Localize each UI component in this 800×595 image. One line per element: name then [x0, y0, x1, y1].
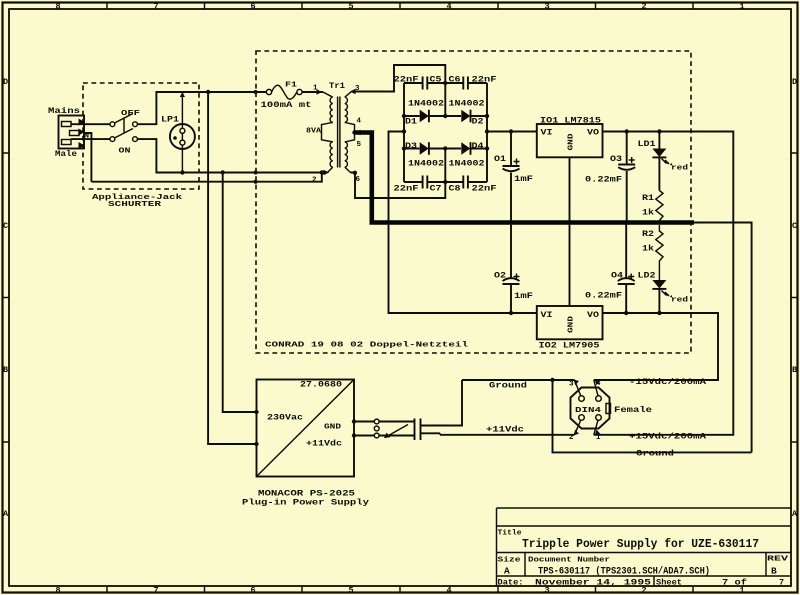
svg-text:22nF: 22nF	[472, 184, 497, 194]
svg-text:4: 4	[446, 2, 451, 12]
wire IO2 GND to bus	[569, 225, 571, 307]
pin 6 arrow and node	[353, 171, 357, 175]
connector jack double bars	[415, 419, 421, 441]
svg-text:7: 7	[779, 578, 784, 588]
svg-text:GND: GND	[568, 315, 576, 333]
svg-text:C5: C5	[430, 75, 442, 85]
transformer primary winding top-left	[323, 92, 333, 122]
svg-text:REV: REV	[767, 556, 789, 564]
svg-text:6: 6	[250, 585, 255, 595]
svg-text:1: 1	[739, 2, 744, 12]
svg-text:B: B	[3, 365, 8, 375]
diode D1	[420, 110, 429, 123]
O2 plus sign	[514, 274, 520, 280]
transformer secondary winding top-right	[345, 92, 352, 123]
LED LD2 triangle	[652, 280, 666, 289]
svg-text:C7: C7	[430, 184, 442, 194]
svg-text:C: C	[3, 221, 8, 231]
wire mains L to switch	[71, 123, 110, 125]
svg-text:22nF: 22nF	[472, 75, 497, 85]
DIN keyway	[606, 404, 611, 414]
capacitor O1 plates	[503, 166, 520, 171]
svg-text:A: A	[792, 509, 798, 519]
LED LD2 lead to negative rail	[658, 289, 660, 313]
node D1 anode	[402, 114, 406, 118]
svg-text:1N4002: 1N4002	[449, 99, 485, 109]
svg-text:Sheet: Sheet	[656, 578, 682, 588]
svg-text:5: 5	[357, 141, 362, 149]
DIN pin circle 1	[596, 415, 602, 421]
svg-text:22nF: 22nF	[394, 184, 419, 194]
svg-text:Title: Title	[498, 530, 523, 538]
node MONACOR pin 230V-2	[254, 442, 258, 446]
wire pin 3 to bridge AC1	[352, 65, 446, 116]
svg-text:O2: O2	[494, 271, 506, 281]
mains connector pin E	[70, 131, 80, 136]
svg-text:R1: R1	[642, 193, 654, 203]
svg-text:Document Number: Document Number	[528, 557, 610, 565]
pin 3 arrow	[350, 89, 356, 95]
LD2 emission arrows	[662, 291, 670, 297]
svg-text:2: 2	[641, 2, 646, 12]
switch S1 pole 2 contacts	[110, 137, 115, 142]
LED LD2 cathode bar	[652, 288, 666, 290]
svg-text:GND: GND	[324, 424, 342, 432]
svg-text:+15Vdc/200mA: +15Vdc/200mA	[629, 432, 707, 442]
svg-text:2: 2	[312, 177, 317, 185]
wire switch pole2 to bottom rail	[137, 139, 327, 172]
svg-text:GND: GND	[568, 133, 576, 151]
frame column numbers bottom	[55, 585, 744, 595]
DIN pin circle 4	[596, 396, 602, 402]
node lamp bottom	[180, 170, 184, 174]
wire IO1 VO rail	[594, 132, 734, 435]
svg-text:D2: D2	[472, 117, 484, 127]
wire mains N to switch	[71, 138, 110, 140]
frame row letters right	[792, 77, 798, 519]
bridge diode row 2 wires	[404, 148, 487, 150]
wire switch pole1 to top rail	[137, 92, 266, 124]
svg-text:N: N	[84, 131, 89, 141]
op regulator IO1 LM7815 box	[537, 124, 603, 157]
transformer Tr1 core	[338, 97, 340, 168]
capacitor C8 plates	[463, 176, 468, 189]
svg-text:IO2 LM7905: IO2 LM7905	[539, 341, 600, 351]
svg-text:OFF: OFF	[121, 110, 141, 118]
node LD1 at VO rail	[657, 129, 661, 133]
svg-text:+11Vdc: +11Vdc	[486, 425, 524, 435]
mains connector pin N	[62, 140, 72, 145]
svg-text:IO1 LM7815: IO1 LM7815	[540, 116, 601, 126]
wire mains E bottom run	[91, 173, 321, 182]
transformer secondary winding bottom-right	[345, 142, 351, 173]
svg-text:O3: O3	[610, 154, 622, 164]
svg-text:100mA mt: 100mA mt	[261, 100, 312, 110]
connector plug arrow	[385, 425, 408, 438]
frame row letters left	[3, 77, 9, 519]
svg-text:ON: ON	[119, 148, 131, 156]
DIN pin 2 stub	[575, 420, 582, 435]
LED LD1 triangle	[652, 149, 666, 158]
bridge top capacitor row	[404, 82, 487, 84]
node MONACOR pin +11V out	[352, 433, 356, 437]
svg-text:1k: 1k	[642, 244, 654, 254]
svg-text:6: 6	[356, 176, 361, 184]
svg-text:4: 4	[446, 585, 451, 595]
wire mains E down	[85, 133, 91, 182]
node bottom rail to monacor drop	[221, 170, 225, 174]
svg-text:A: A	[3, 509, 9, 519]
svg-text:D: D	[792, 77, 797, 87]
svg-text:1k: 1k	[642, 208, 654, 218]
bridge right rail (positive)	[486, 83, 488, 182]
svg-text:1N4002: 1N4002	[408, 159, 444, 169]
svg-text:VI: VI	[541, 128, 553, 138]
LED LD1 lead	[658, 132, 660, 191]
svg-text:1: 1	[313, 85, 318, 93]
bridge bottom capacitor row	[404, 181, 487, 183]
power supply U2 MONACOR box	[257, 380, 355, 477]
svg-text:27.0680: 27.0680	[300, 380, 342, 390]
node top rail to monacor drop	[206, 90, 210, 94]
node D2 cathode	[485, 114, 489, 118]
O1 plus sign	[514, 159, 520, 165]
svg-text:22nF: 22nF	[394, 75, 419, 85]
DIN pin 4 stub	[594, 380, 598, 397]
wire drop to monacor 230V pin 1	[223, 173, 257, 413]
capacitor O3 plates	[618, 165, 635, 170]
wire ground top run	[462, 379, 575, 381]
node ground riser to bottom ground	[550, 378, 554, 382]
svg-text:LP1: LP1	[161, 115, 179, 125]
svg-text:C: C	[792, 221, 797, 231]
svg-text:Ground: Ground	[636, 449, 674, 459]
capacitor O3 lead	[626, 132, 628, 221]
wire bus thin extension to right	[694, 223, 752, 453]
LD1 emission arrows	[662, 159, 670, 165]
switch mechanical link	[123, 118, 125, 134]
CONRAD dashed box	[256, 51, 691, 353]
mains connector pin L	[62, 122, 72, 127]
svg-text:+11Vdc: +11Vdc	[306, 439, 342, 449]
node wire crossing dashed edge mid	[254, 171, 258, 175]
DIN pin 1 stub	[594, 420, 598, 435]
frame column numbers top	[55, 2, 744, 12]
svg-text:November 14, 1995: November 14, 1995	[535, 578, 651, 588]
capacitor O4 plates	[618, 278, 635, 284]
svg-text:8: 8	[55, 2, 60, 12]
diode D2	[461, 110, 470, 123]
pin 1 arrow	[317, 89, 323, 95]
svg-text:4: 4	[596, 380, 601, 388]
svg-text:6: 6	[250, 2, 255, 12]
svg-text:F1: F1	[285, 82, 298, 90]
node wire crossing dashed edge low	[254, 180, 258, 184]
mains connector J1 outline	[59, 116, 85, 149]
svg-text:1mF: 1mF	[514, 174, 533, 184]
svg-text:VI: VI	[541, 310, 553, 320]
node LD2 at VO rail	[657, 311, 661, 315]
wire IO2 VO rail	[594, 313, 718, 380]
resistor R1	[656, 191, 663, 223]
svg-text:1: 1	[596, 434, 601, 442]
svg-text:Date:: Date:	[498, 578, 524, 588]
node O2 at VI rail	[509, 311, 513, 315]
node D1 cathode AC1	[443, 114, 447, 118]
frame column ticks top	[107, 3, 693, 10]
svg-text:DIN4: DIN4	[575, 407, 602, 415]
svg-text:Ground: Ground	[489, 381, 527, 391]
frame row ticks left	[3, 153, 10, 442]
frame row ticks right	[791, 153, 798, 442]
svg-text:7: 7	[153, 585, 158, 595]
capacitor O2 lead	[510, 225, 512, 314]
wire GND out to plug	[354, 421, 415, 423]
O3 plus sign	[629, 157, 635, 163]
resistor R2	[656, 225, 663, 280]
connector plug circles	[374, 419, 379, 424]
node center tap	[352, 130, 356, 134]
transformer primary winding bottom-left	[328, 142, 333, 173]
svg-text:Tripple Power Supply for UZE-6: Tripple Power Supply for UZE-630117	[522, 537, 759, 551]
pin 2 arrow	[324, 170, 330, 176]
wire fuse to transformer pin 1	[302, 91, 323, 93]
svg-text:Tr1: Tr1	[329, 81, 345, 91]
svg-text:D1: D1	[405, 117, 417, 127]
svg-text:5: 5	[348, 585, 353, 595]
svg-text:1mF: 1mF	[514, 291, 533, 301]
title block frame	[497, 508, 792, 586]
svg-text:7: 7	[153, 2, 158, 12]
svg-text:C6: C6	[449, 75, 461, 85]
svg-text:3: 3	[569, 381, 574, 389]
node pos rail at right rail	[485, 129, 489, 133]
capacitor O4 lead	[625, 225, 627, 314]
svg-text:2: 2	[569, 434, 574, 442]
wire thick center tap to ground bus	[355, 133, 372, 223]
switch S1 pole 1 blade	[115, 114, 134, 124]
DIN connector octagon	[571, 388, 610, 429]
svg-text:0.22mF: 0.22mF	[585, 291, 622, 301]
MONACOR diagonal	[257, 380, 355, 477]
node D3 anode	[402, 146, 406, 150]
DIN pin 3 stub	[575, 380, 582, 397]
svg-text:D: D	[3, 77, 8, 87]
diode D4	[461, 142, 470, 155]
node O3 at VO rail	[625, 129, 629, 133]
node AC1 top cap row	[443, 81, 447, 85]
LED LD1 cathode bar	[652, 156, 666, 158]
svg-text:Mains: Mains	[48, 106, 80, 116]
switch S1 pole 1 contacts	[110, 122, 115, 127]
node mains E joins pin2	[320, 170, 324, 174]
bridge diode row 1 wires	[404, 115, 487, 117]
node MONACOR pin 230V-1	[254, 410, 258, 414]
node O4 at VO rail	[624, 311, 628, 315]
svg-text:Female: Female	[614, 405, 652, 415]
svg-text:LD1: LD1	[638, 139, 656, 149]
DIN pin circle 2	[579, 415, 585, 421]
svg-text:A: A	[504, 566, 510, 577]
svg-text:7 of: 7 of	[722, 578, 747, 588]
frame column ticks bottom	[107, 586, 693, 593]
svg-text:-15Vdc/200mA: -15Vdc/200mA	[629, 377, 707, 387]
transformer primary series link	[322, 122, 333, 141]
wire jack +11V to DIN pin 2	[421, 433, 575, 435]
svg-text:O1: O1	[494, 154, 506, 164]
svg-text:D4: D4	[472, 141, 484, 151]
diode D3	[420, 142, 429, 155]
wire IO1 GND to bus	[569, 157, 571, 220]
node MONACOR pin GND out	[352, 419, 356, 423]
svg-text:C8: C8	[449, 184, 461, 194]
svg-text:LD2: LD2	[638, 271, 656, 281]
svg-text:4: 4	[357, 118, 362, 126]
svg-text:red: red	[671, 297, 688, 305]
svg-text:5: 5	[348, 2, 353, 12]
capacitor C6 plates	[463, 77, 468, 90]
node AC2 bottom cap row	[443, 180, 447, 184]
svg-text:B: B	[771, 566, 777, 577]
svg-text:1N4002: 1N4002	[408, 99, 444, 109]
node D3 cathode AC2	[443, 146, 447, 150]
wire positive rail to IO1	[487, 131, 537, 133]
svg-text:D3: D3	[405, 141, 417, 151]
wire ground down and bottom run	[553, 380, 752, 452]
capacitor O1 lead	[510, 132, 512, 221]
svg-text:TPS-630117 (TPS2301.SCH/ADA7.S: TPS-630117 (TPS2301.SCH/ADA7.SCH)	[538, 566, 710, 578]
svg-text:O4: O4	[611, 271, 623, 281]
svg-text:VO: VO	[587, 310, 599, 320]
capacitor O2 plates	[503, 278, 520, 284]
wire jack to ground riser	[421, 380, 463, 426]
svg-text:VO: VO	[587, 128, 599, 138]
svg-text:CONRAD 19 08 02 Doppel-Netztei: CONRAD 19 08 02 Doppel-Netzteil	[265, 342, 469, 350]
wire +11V out to plug	[354, 435, 415, 437]
svg-text:Size: Size	[498, 557, 522, 565]
fuse F1	[266, 89, 271, 94]
svg-text:R2: R2	[642, 229, 654, 239]
node O1 at VI rail	[509, 129, 513, 133]
svg-text:Plug-in Power Supply: Plug-in Power Supply	[242, 498, 369, 508]
svg-text:3: 3	[544, 2, 549, 12]
lamp LP1	[170, 124, 195, 149]
node neg rail at left rail	[402, 129, 406, 133]
appliance jack dashed box	[83, 83, 199, 189]
op regulator IO2 LM7905 box	[537, 306, 603, 339]
wire drop to monacor 230V pin 2	[208, 92, 256, 444]
node D4 cathode	[485, 146, 489, 150]
svg-text:8VA: 8VA	[306, 128, 322, 136]
capacitor C7 plates	[423, 176, 428, 189]
svg-text:SCHURTER: SCHURTER	[108, 201, 162, 209]
svg-text:red: red	[671, 165, 688, 173]
bridge left rail (negative)	[403, 83, 405, 182]
svg-text:8: 8	[55, 585, 60, 595]
node wire crossing dashed edge top	[254, 90, 258, 94]
wire negative rail down to IO2	[389, 132, 537, 314]
DIN pin circle 3	[579, 396, 585, 402]
pin 4 arrow	[355, 130, 361, 136]
svg-text:230Vac: 230Vac	[267, 413, 303, 423]
capacitor C5 plates	[423, 77, 428, 90]
ground bus thick	[370, 220, 695, 225]
svg-text:B: B	[792, 365, 797, 375]
svg-text:1N4002: 1N4002	[449, 159, 485, 169]
wire pin 6 to bridge AC2	[351, 149, 446, 199]
svg-text:Male: Male	[55, 149, 77, 159]
transformer secondary series link	[345, 122, 355, 141]
O4 plus sign	[628, 274, 634, 280]
switch S1 pole 2 blade	[115, 129, 134, 139]
svg-text:0.22mF: 0.22mF	[585, 175, 622, 185]
